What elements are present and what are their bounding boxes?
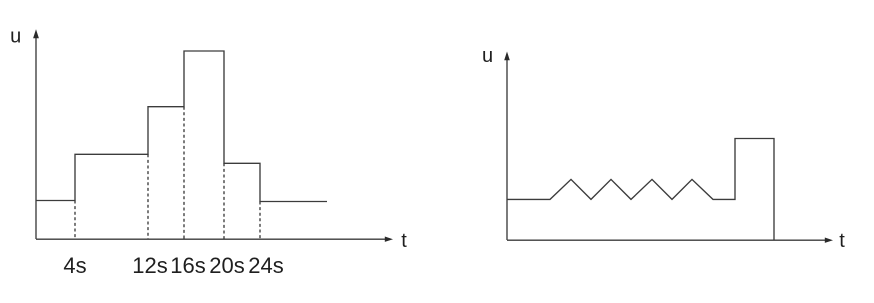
svg-text:20s: 20s (209, 253, 244, 278)
svg-text:16s: 16s (170, 253, 205, 278)
svg-text:t: t (401, 230, 407, 252)
svg-text:u: u (482, 45, 493, 67)
svg-text:12s: 12s (132, 253, 167, 278)
svg-text:u: u (10, 26, 21, 48)
svg-text:4s: 4s (63, 253, 86, 278)
svg-text:24s: 24s (248, 253, 283, 278)
svg-text:t: t (839, 230, 845, 252)
